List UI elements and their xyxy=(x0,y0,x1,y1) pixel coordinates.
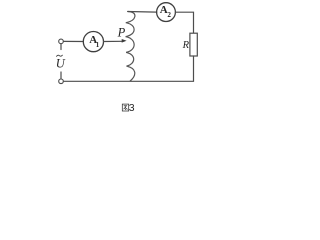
svg-text:P: P xyxy=(117,26,126,40)
svg-text:2: 2 xyxy=(167,11,171,19)
svg-text:3: 3 xyxy=(129,102,135,114)
svg-text:R: R xyxy=(182,40,190,51)
svg-text:U: U xyxy=(56,56,66,70)
svg-text:1: 1 xyxy=(96,41,100,49)
